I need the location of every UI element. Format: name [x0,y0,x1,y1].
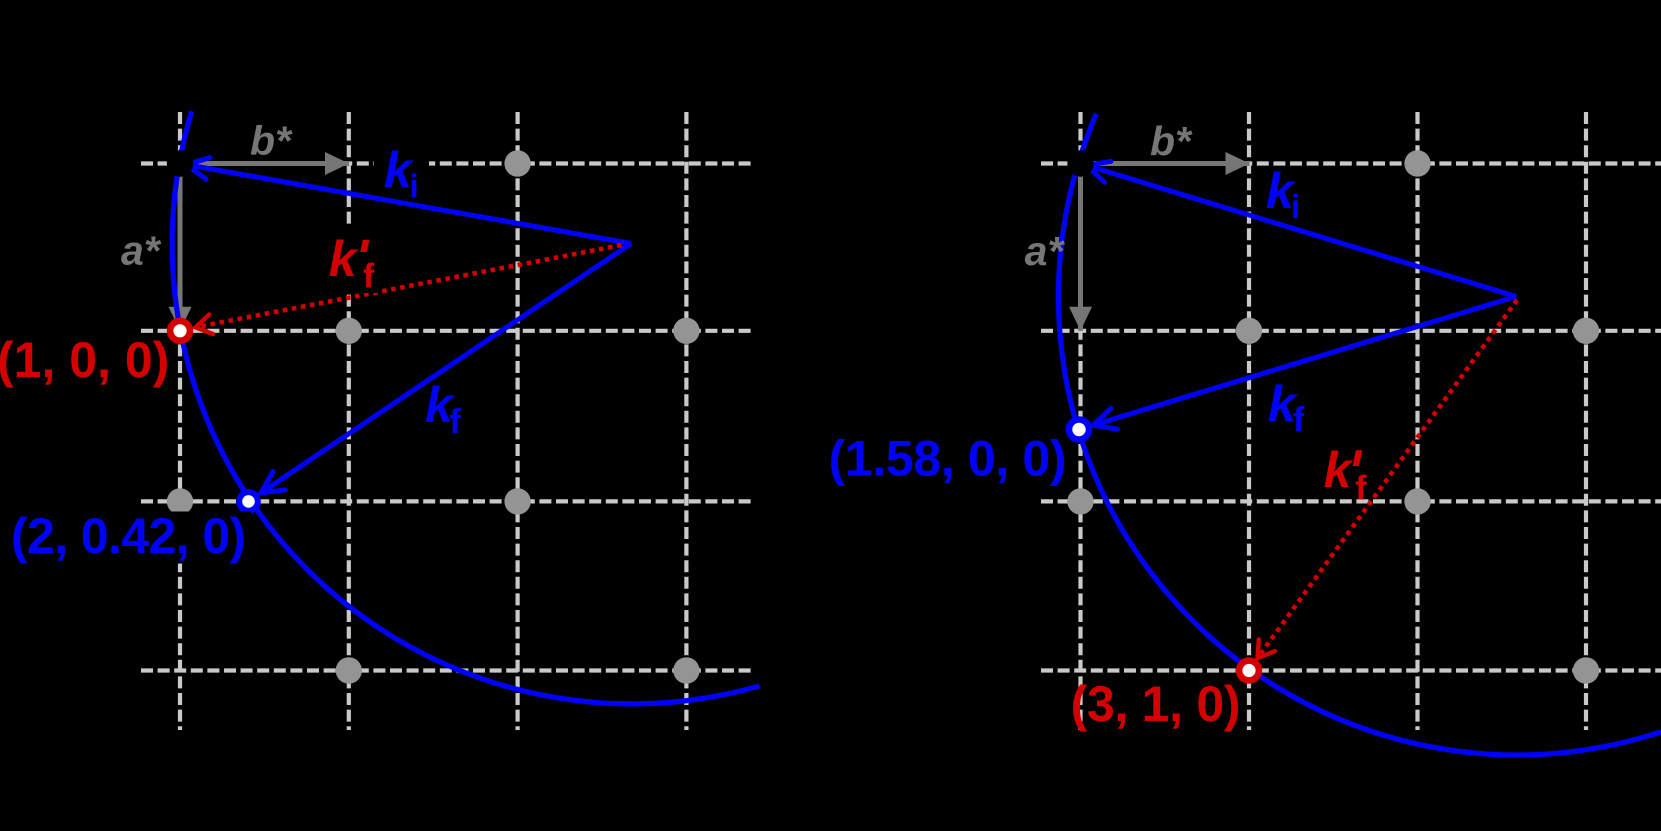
k_i arrow shaft left [186,165,631,244]
k_f arrow shaft right [1093,297,1516,426]
k'_f arrowhead right [1249,639,1275,664]
k_f arrow shaft left [261,244,631,494]
black origin dot left [167,150,193,176]
red ring (1,0,0) left [170,321,190,341]
blue point (1.58,0,0) right [1069,420,1089,440]
blue point (2,0.42,0) left [239,492,258,511]
k_i arrowhead right [1083,155,1110,182]
svg-text:a*: a* [121,228,162,274]
svg-text:f: f [1293,401,1305,439]
k_i arrow shaft right [1087,165,1516,296]
labels left [0,118,462,564]
svg-text:(1.58, 0, 0): (1.58, 0, 0) [829,430,1067,486]
svg-text:f: f [1355,470,1367,508]
grid dashed lines right [1041,112,1661,730]
svg-text:f: f [363,257,375,295]
k'_f dotted red arrow right [1258,300,1518,658]
svg-text:a*: a* [1025,228,1066,274]
k'_f dotted red arrow left [196,245,622,327]
gray lattice dots left [167,150,700,683]
label background masks left [374,145,429,195]
red ring (3,1,0) right [1239,661,1259,681]
svg-text:i: i [1291,188,1300,225]
black origin dot right [1067,150,1093,176]
k_f arrowhead left [255,472,286,503]
svg-text:i: i [410,168,419,205]
Ewald circle arc right [1058,114,1661,755]
b* arrow right [1081,161,1250,166]
k'_f arrowhead left [194,314,214,337]
a* arrow right [1078,164,1083,331]
Ewald circle arc left [172,111,759,704]
svg-text:f: f [450,403,462,441]
grid dashed lines left [141,112,753,730]
svg-text:(2, 0.42, 0): (2, 0.42, 0) [11,508,246,564]
svg-text:k: k [1324,442,1354,498]
horizontal grid lines [141,161,753,165]
k_i arrowhead left [184,154,210,180]
gray lattice dots right [1067,150,1599,683]
vertical grid lines [178,112,182,730]
svg-text:k: k [329,231,359,287]
svg-text:b*: b* [1150,118,1193,164]
k_f arrowhead right [1090,408,1117,435]
svg-text:(3, 1, 0): (3, 1, 0) [1071,676,1241,732]
a* arrow left [178,164,183,331]
svg-text:b*: b* [250,118,293,164]
svg-text:(1, 0, 0): (1, 0, 0) [0,332,169,388]
b* arrow left [180,161,349,166]
labels right [829,118,1368,732]
